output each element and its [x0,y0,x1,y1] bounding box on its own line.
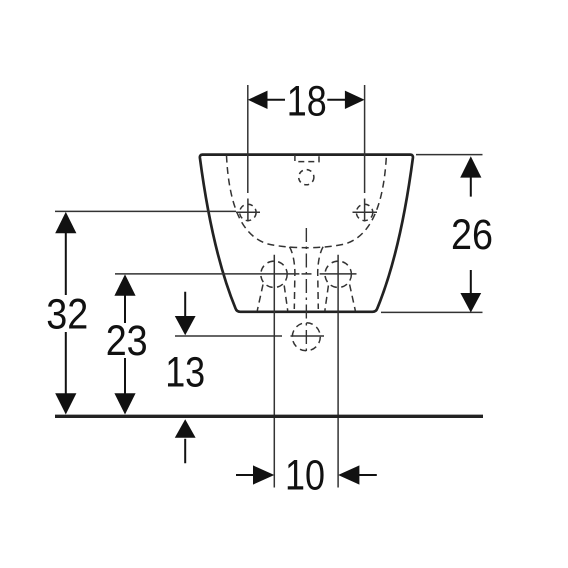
bottom drain hole dashed circle [292,323,320,351]
dim 26 bottom arrow [460,293,481,313]
dim 18 left arrow [248,91,268,109]
dim 10 right arrow (points left) [338,465,359,484]
small top hole dashed circle [299,170,314,185]
dim 13 bottom arrow (points up, below floor) [175,419,196,438]
extension line 26 top [416,154,483,156]
dim 26 stems [470,177,472,294]
svg-text:10: 10 [285,451,325,499]
extension line 18 left [247,85,249,193]
dim 32 top arrow [55,212,76,233]
top fixing tab dashed [295,155,319,162]
vertical centerline dash-dot [305,228,307,355]
floor line [55,415,483,418]
reference line 13 [175,335,282,337]
upper-left fixing hole dashed circle [240,204,256,220]
left foot dashed lines [257,285,287,311]
center dash at hole level [302,273,312,275]
dim 32 bottom arrow [55,393,76,414]
dim 23 stems [124,295,126,395]
extension line 26 bottom [381,311,483,313]
dim 23 bottom arrow [114,393,135,414]
dim 26 top arrow [460,156,481,177]
dim 10 left arrow (points right) [253,465,274,484]
reference line 32 [55,210,236,212]
bowl rim dashed U [227,156,387,248]
middle-right hole cross horizontal [320,273,357,275]
upper-right hole cross [353,199,378,222]
upper-right fixing hole dashed circle [356,204,372,220]
drain neck left dashed [290,247,295,309]
extension line 18 right [364,85,366,193]
dim 18 line tails [267,99,346,101]
dim 10 tails [236,474,377,476]
dim 32 stems [65,232,67,394]
dim 23 top arrow [114,274,135,295]
right foot dashed lines [325,285,355,311]
svg-text:18: 18 [287,78,327,126]
dim 18 right arrow [345,91,365,109]
dim 13 stems [184,292,186,464]
svg-text:26: 26 [451,211,493,259]
extension line 10 right (through middle-right hole) [337,255,339,488]
svg-text:13: 13 [165,349,205,397]
extension line 10 left (through middle-left hole) [273,255,275,488]
middle-right fixing hole dashed circle [325,261,351,287]
bottom hole cross horizontal [291,335,325,337]
drain neck right dashed [318,247,323,309]
bidet outline [200,155,413,312]
reference line 23 + middle-left hole cross [115,273,299,275]
svg-text:32: 32 [46,291,88,339]
upper-left hole cross [236,199,260,222]
dim 13 top arrow (points down) [175,316,196,335]
middle-left fixing hole dashed circle [261,261,287,287]
svg-text:23: 23 [106,317,148,365]
